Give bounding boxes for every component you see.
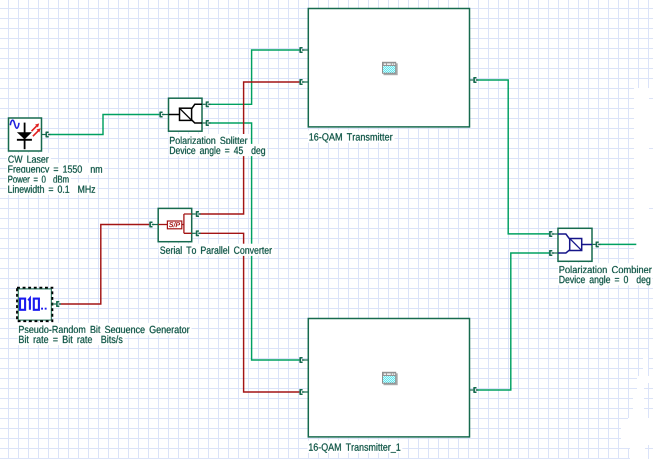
Serial To Parallel Converter xyxy=(158,208,192,241)
label "Polarization Splitter" xyxy=(169,134,250,146)
Transmitter_1 output port xyxy=(470,389,474,391)
label "Power = 0 dBm" xyxy=(7,173,71,185)
label "16-QAM Transmitter" xyxy=(308,130,395,142)
wire: Splitter bottom output to 16-QAM Transmitter_1 input 1 xyxy=(210,123,299,360)
PRBS output port xyxy=(52,303,56,305)
label "Device angle = 45 deg" xyxy=(169,144,268,156)
Splitter input port xyxy=(160,112,164,118)
S/P input port xyxy=(150,222,154,228)
label "Pseudo-Random Bit Sequence Generator" xyxy=(18,323,192,335)
Pseudo-Random Bit Sequence Generator xyxy=(17,288,52,322)
wire: Transmitter output to Polarization Combiner input 1 xyxy=(478,80,549,234)
wire: Transmitter_1 output to Polarization Combiner input 2 xyxy=(478,253,549,390)
wire: S/P top output to 16-QAM Transmitter input 2 xyxy=(200,82,299,214)
wire: S/P bottom output to 16-QAM Transmitter_1 input 2 xyxy=(200,233,299,392)
Transmitter output port xyxy=(470,79,474,81)
Splitter output port 1 xyxy=(202,103,206,105)
label "Polarization Combiner" xyxy=(558,263,653,275)
white page-edge notch right xyxy=(634,88,653,266)
16-QAM Transmitter (top subsystem box) xyxy=(308,9,469,127)
label "Bit rate = Bit rate Bits/s" xyxy=(18,333,125,345)
wire: Splitter top output to 16-QAM Transmitter input 1 xyxy=(210,50,299,104)
Combiner output port xyxy=(592,243,596,245)
S/P output port 2 xyxy=(192,232,196,234)
S/P output port 1 xyxy=(192,213,196,215)
wire: PRBS to Serial To Parallel Converter (electrical, red) xyxy=(61,225,150,305)
label "16-QAM Transmitter_1" xyxy=(308,441,403,453)
label "Device angle = 0 deg" xyxy=(558,273,652,285)
label "Frequency = 1550 nm" xyxy=(7,163,105,175)
label "Serial To Parallel Converter" xyxy=(159,244,274,256)
Transmitter input port 2 xyxy=(300,79,304,85)
wire: Combiner output xyxy=(600,243,636,245)
white page-edge patch bottom-right xyxy=(621,340,653,459)
Transmitter_1 input port 2 xyxy=(300,389,304,395)
Combiner input port 1 xyxy=(550,231,554,237)
Polarization Combiner xyxy=(558,228,592,261)
Transmitter_1 input port 1 xyxy=(300,357,304,363)
label "Linewidth = 0.1 MHz" xyxy=(7,183,98,195)
Splitter output port 2 xyxy=(202,122,206,124)
16-QAM Transmitter_1 (bottom subsystem box) xyxy=(308,319,469,437)
Combiner input port 2 xyxy=(550,250,554,256)
wire: CW Laser to Polarization Splitter (optical, green) xyxy=(50,115,159,135)
CW Laser output port xyxy=(42,134,46,136)
CW Laser xyxy=(9,118,42,151)
label "CW Laser" xyxy=(7,153,51,165)
Polarization Splitter xyxy=(169,98,203,131)
Transmitter input port 1 xyxy=(300,47,304,53)
grid fragments in white patch xyxy=(644,99,653,459)
